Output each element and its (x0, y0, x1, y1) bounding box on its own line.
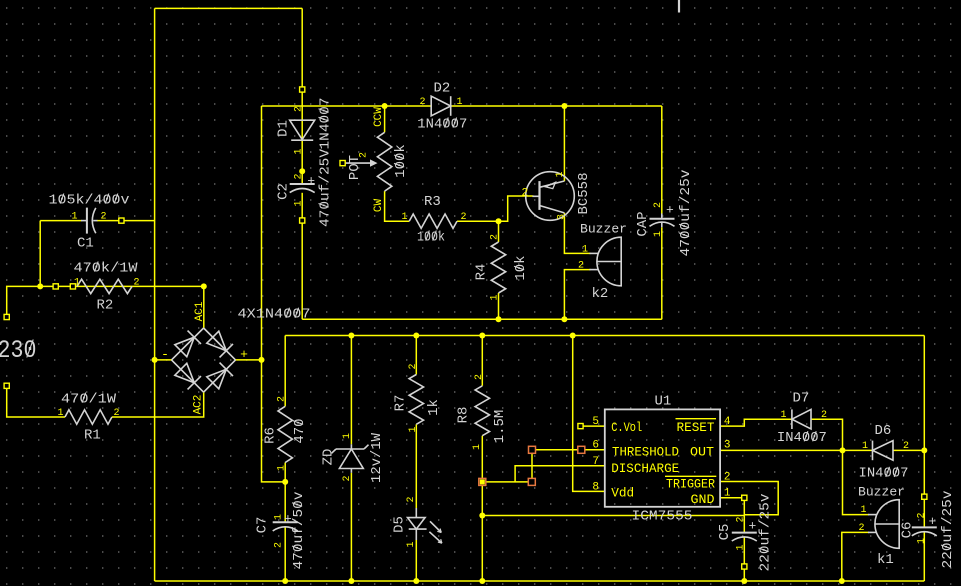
svg-text:-: - (161, 347, 169, 362)
svg-text:+: + (929, 514, 937, 529)
svg-text:2: 2 (273, 542, 284, 548)
diode D1 (290, 120, 315, 140)
capacitor C5 (732, 519, 757, 542)
svg-text:CCW: CCW (373, 107, 385, 127)
wire: bridge AC1 vertical (203, 286, 205, 328)
capacitor C7 (273, 511, 298, 531)
node AC2 (193, 395, 205, 415)
svg-text:D6: D6 (875, 423, 892, 439)
wire: right rail to C6 (923, 450, 925, 527)
svg-text:1: 1 (273, 514, 284, 520)
wire: D7 cathode to OUT node (811, 419, 843, 450)
svg-text:1: 1 (406, 541, 417, 547)
junction bridge plus (259, 357, 265, 363)
svg-text:2: 2 (419, 97, 425, 108)
svg-text:R1: R1 (84, 427, 101, 443)
transistor Q1 BC558 (526, 172, 575, 221)
terminal mains lower (4, 383, 9, 388)
svg-text:2: 2 (653, 202, 664, 208)
svg-text:2: 2 (474, 374, 485, 380)
svg-text:BC558: BC558 (576, 172, 592, 214)
junction R8 trigger net (479, 513, 485, 519)
pin 1 of R7 (408, 426, 419, 432)
label ZD (320, 449, 336, 466)
label R6 (262, 427, 278, 444)
svg-text:IN4007: IN4007 (859, 466, 909, 482)
wire: buzzer k1 pin2 to bottom rail (842, 532, 869, 581)
junction POT top rail (382, 103, 388, 109)
junction ZD bottom rail (348, 578, 354, 584)
label R4 (473, 264, 489, 281)
svg-text:3: 3 (556, 214, 567, 220)
wire: C7 to bottom rail (284, 527, 286, 581)
wire: mains terminal upper (7, 286, 41, 317)
svg-text:1: 1 (408, 426, 419, 432)
label POT (347, 155, 363, 180)
wire: D6 to right rail (893, 449, 924, 451)
junction k2 bottom rail (561, 316, 567, 322)
pin 2 of CAP (653, 202, 664, 208)
pin 2 of D5 (406, 496, 417, 502)
svg-text:2: 2 (134, 277, 140, 288)
label CW (373, 199, 385, 213)
junction R3/R4/base (496, 218, 502, 224)
svg-text:CW: CW (373, 199, 385, 213)
led D5 (408, 508, 442, 543)
svg-text:220uf/25v: 220uf/25v (757, 494, 773, 572)
label BC558 (576, 172, 592, 214)
svg-text:2: 2 (724, 472, 731, 484)
wire: R6 branch upper (284, 336, 286, 407)
svg-text:2: 2 (101, 212, 107, 223)
pin 1 of R8 (472, 444, 483, 450)
resistor R4 (491, 242, 505, 293)
resistor R8 (475, 386, 489, 436)
wire: right rail upper (923, 336, 925, 451)
wire: top block right vertical above CAP (661, 106, 663, 214)
highlight marker discharge corner (528, 478, 535, 485)
svg-text:1: 1 (916, 538, 927, 544)
svg-text:1N4007: 1N4007 (417, 116, 467, 132)
wire: top block top rail left of D2 (262, 105, 432, 107)
svg-text:C7: C7 (254, 517, 270, 534)
label POT value 100k (393, 144, 409, 178)
wire: R4 top stub (498, 221, 500, 242)
svg-text:RESET: RESET (677, 420, 715, 435)
svg-text:1: 1 (862, 441, 868, 452)
node AC1 (194, 301, 206, 321)
svg-text:1: 1 (860, 505, 866, 516)
buzzer k1 (868, 500, 899, 549)
svg-text:1: 1 (293, 200, 304, 206)
junction D6 right rail (921, 447, 927, 453)
svg-text:1: 1 (555, 171, 566, 177)
svg-text:1k: 1k (426, 399, 442, 416)
pin 2 of C5 (735, 516, 746, 522)
wire: C6 to bottom rail (923, 532, 925, 581)
capacitor CAP 4700uf (650, 203, 675, 228)
label C6 (899, 522, 915, 539)
label C7 value 470uf/50v (291, 492, 307, 570)
svg-text:R6: R6 (262, 427, 278, 444)
svg-text:1: 1 (489, 294, 500, 300)
highlight marker R8 threshold node (479, 478, 486, 485)
svg-text:10k: 10k (513, 255, 529, 280)
pin 1 of ZD (342, 433, 353, 439)
pin 2 of D1 (293, 106, 304, 112)
junction R2/AC1 (201, 283, 207, 289)
wire: R7 branch upper (415, 336, 417, 375)
svg-text:5: 5 (592, 416, 599, 428)
pin 1 of C5 (735, 544, 746, 550)
resistor R2 (77, 279, 132, 293)
pin 2 of R6 (276, 396, 287, 402)
pin 2 of R4 (489, 234, 500, 240)
svg-text:2: 2 (858, 523, 864, 534)
wire: C1 left vertical (39, 221, 41, 287)
wire: U1 pin4 RESET to D7 (720, 419, 792, 426)
wire: R2 output to AC1 node (40, 285, 204, 287)
wire: top block top rail right of D2 (451, 105, 662, 107)
svg-text:Buzzer: Buzzer (858, 485, 905, 500)
pin 1 of C7 (273, 514, 284, 520)
wire: Q1 collector to buzzer k2 pin1 (564, 213, 590, 254)
pin 1 of C6 (916, 538, 927, 544)
resistor R3 (409, 214, 457, 228)
wire: R8 branch upper (481, 336, 483, 386)
svg-text:U1: U1 (655, 393, 672, 409)
wire: bottom rail (155, 580, 925, 582)
svg-text:R7: R7 (392, 395, 408, 412)
svg-text:2: 2 (461, 212, 467, 223)
svg-text:+: + (666, 203, 674, 218)
svg-text:470: 470 (292, 418, 308, 443)
wire end marker C1 right (119, 218, 124, 223)
pin 1 of R4 (489, 294, 500, 300)
junction ZD top rail (348, 333, 354, 339)
junction R4 bottom rail (496, 316, 502, 322)
wire: D1/C2 branch vertical upper (301, 8, 303, 184)
svg-text:2: 2 (489, 234, 500, 240)
svg-text:2: 2 (358, 152, 369, 158)
svg-text:C1: C1 (77, 235, 94, 251)
junction R8 bottom rail (479, 578, 485, 584)
diode D2 (431, 96, 451, 116)
wire: C1 pin2 to left vertical (97, 220, 155, 222)
wire: bridge plus down to R6 node (262, 360, 286, 482)
label C6 value 220uf/25v (940, 491, 956, 569)
bridge rectifier 4X1N4007 (172, 328, 236, 392)
svg-text:R2: R2 (97, 297, 114, 313)
svg-text:1N4007: 1N4007 (317, 98, 333, 150)
wire: D5 to bottom rail (415, 540, 417, 581)
wire: D1/C2 branch vertical lower (301, 193, 303, 319)
wire: threshold link vertical (531, 450, 533, 482)
POT wiper terminal (340, 161, 345, 166)
svg-text:4: 4 (724, 416, 731, 428)
wire: mains terminal lower to R1 (7, 386, 65, 417)
label C5 value 220uf/25v (757, 494, 773, 572)
label D5 (391, 516, 407, 533)
label D1 value 1N4007 (317, 98, 333, 150)
label R8 (455, 407, 471, 424)
svg-text:R3: R3 (424, 194, 441, 210)
pin 2 of C7 (273, 542, 284, 548)
svg-text:1: 1 (57, 408, 63, 419)
label CAP value 4700uf/25v (678, 170, 694, 257)
wire end marker R2 left b (70, 284, 75, 289)
svg-text:C.Vol: C.Vol (611, 420, 642, 435)
wire end marker C2 bottom (300, 218, 305, 223)
label R6 value 470 (292, 418, 308, 443)
highlight marker threshold pin6 a (578, 446, 585, 453)
label R7 (392, 395, 408, 412)
svg-text:220uf/25v: 220uf/25v (940, 491, 956, 569)
svg-text:2: 2 (406, 496, 417, 502)
svg-text:R8: R8 (455, 407, 471, 424)
svg-text:1: 1 (457, 97, 463, 108)
svg-text:IN4007: IN4007 (777, 430, 827, 446)
label C5 (717, 524, 733, 541)
wire: R8 branch lower (481, 436, 483, 581)
label ZD value 12v/1W (369, 432, 385, 483)
svg-text:1: 1 (401, 212, 407, 223)
label C7 (254, 517, 270, 534)
wire: POT bottom to R3 (385, 191, 410, 221)
svg-text:2: 2 (916, 512, 927, 518)
wire: R7 to D5 (415, 424, 417, 508)
svg-text:+: + (307, 173, 315, 188)
svg-text:1: 1 (71, 212, 77, 223)
highlight marker threshold pin6 b (529, 446, 536, 453)
svg-text:OUT: OUT (690, 445, 714, 460)
wire: C1 pin1 stub (40, 220, 81, 222)
buzzer k2 (590, 237, 622, 286)
svg-text:2: 2 (408, 363, 419, 369)
zener diode ZD (332, 444, 369, 473)
junction D5 bottom rail (413, 578, 419, 584)
wire end marker R2 left a (53, 284, 58, 289)
junction C7 bottom rail (282, 578, 288, 584)
junction k1 bottom rail (839, 578, 845, 584)
svg-text:GND: GND (691, 492, 715, 507)
wire: bridge plus stub (236, 359, 262, 361)
pin 1 of Q1 (555, 171, 566, 177)
pin 1 of R6 (276, 465, 287, 471)
svg-text:AC2: AC2 (193, 395, 205, 415)
svg-text:D2: D2 (434, 81, 451, 97)
svg-text:1: 1 (293, 148, 304, 154)
svg-text:2: 2 (114, 408, 120, 419)
wire: POT top (384, 106, 386, 132)
svg-text:12v/1W: 12v/1W (369, 432, 385, 483)
svg-text:1: 1 (472, 444, 483, 450)
junction C1/R2 node (37, 283, 43, 289)
svg-text:R4: R4 (473, 264, 489, 281)
svg-text:C6: C6 (899, 522, 915, 539)
resistor R7 (409, 375, 423, 425)
junction C5 bottom rail (741, 578, 747, 584)
svg-text:2: 2 (293, 173, 304, 179)
junction D1/C2 (299, 168, 305, 174)
svg-text:470k/1W: 470k/1W (74, 260, 139, 276)
svg-text:2: 2 (522, 187, 529, 199)
resistor R6 (278, 406, 292, 462)
svg-text:AC1: AC1 (194, 301, 206, 321)
wire: C5 to bottom rail (743, 537, 745, 581)
wire: left main vertical (154, 8, 156, 581)
wire: bridge minus stub (155, 359, 172, 361)
svg-text:+: + (749, 519, 757, 534)
wire: lower block top rail (285, 335, 924, 337)
pin 2 of ZD (342, 475, 353, 481)
junction R8 top rail (479, 333, 485, 339)
svg-text:1: 1 (276, 465, 287, 471)
svg-text:D7: D7 (793, 390, 810, 406)
pin 1 of D1 (293, 148, 304, 154)
resistor R1 (65, 410, 112, 424)
wire: Vdd feed vertical (573, 336, 605, 492)
pin 2 of R7 (408, 363, 419, 369)
svg-text:4X1N4007: 4X1N4007 (238, 307, 311, 323)
pin 2 of C6 (916, 512, 927, 518)
wire: threshold link horizontal (482, 481, 532, 483)
svg-text:Buzzer: Buzzer (580, 222, 627, 237)
wire: U1 pin3 OUT to D6 (720, 449, 872, 451)
wire: U1 pin6 THRESHOLD (532, 449, 605, 451)
diode D6 (873, 441, 894, 461)
wire: top block bottom rail (302, 318, 662, 320)
pin 2 of POT (358, 152, 369, 158)
svg-text:Vdd: Vdd (611, 486, 634, 501)
label D1 (275, 120, 291, 137)
capacitor C1 (81, 208, 98, 234)
wire: top block left vertical (261, 106, 263, 360)
label C2 (275, 183, 291, 200)
op-amp U1 ICM7555 box (605, 409, 720, 506)
svg-text:8: 8 (592, 482, 599, 494)
svg-text:7: 7 (592, 456, 599, 468)
svg-text:1: 1 (653, 231, 664, 237)
pin 2 of C2 (293, 173, 304, 179)
svg-text:+: + (240, 347, 248, 362)
svg-text:1: 1 (724, 488, 731, 500)
junction emitter top rail (561, 103, 567, 109)
capacitor C2 (290, 173, 316, 192)
wire: U1 pin7 DISCHARGE with drop (515, 466, 605, 482)
junction D7/OUT (840, 447, 846, 453)
svg-text:470uf/25V: 470uf/25V (317, 148, 333, 227)
terminal mains upper (4, 314, 9, 319)
wire: base node to Q1 base (499, 196, 534, 221)
pin 2 of R8 (474, 374, 485, 380)
diode D7 (792, 409, 811, 429)
svg-text:1: 1 (342, 433, 353, 439)
wire: top block right vertical below CAP (661, 227, 663, 319)
wire end marker GND pin1 (742, 495, 747, 500)
wire end marker C5 bottom (742, 564, 747, 569)
wire: R3 to base node (457, 220, 499, 222)
svg-text:4700uf/25v: 4700uf/25v (678, 170, 694, 257)
junction R7 top rail (413, 333, 419, 339)
wire: trigger net horizontal under U1 (482, 515, 744, 517)
wire: R1 to bridge AC2 (112, 392, 204, 417)
svg-text:1: 1 (780, 410, 786, 421)
wire: ZD branch upper (350, 336, 352, 445)
label R7 value 1k (426, 399, 442, 416)
svg-text:D1: D1 (275, 120, 291, 137)
svg-text:DISCHARGE: DISCHARGE (611, 461, 679, 476)
junction Vdd top rail (570, 333, 576, 339)
svg-text:2: 2 (821, 410, 827, 421)
svg-text:TRIGGER: TRIGGER (666, 477, 715, 492)
svg-text:k1: k1 (877, 552, 894, 568)
wire: U1 pin2 TRIGGER loop (720, 482, 778, 515)
svg-text:C5: C5 (717, 524, 733, 541)
clipped vertical mark top right (678, 0, 680, 13)
potentiometer POT (343, 132, 392, 191)
svg-text:1: 1 (735, 544, 746, 550)
svg-text:THRESHOLD: THRESHOLD (612, 445, 679, 460)
label R4 value 10k (513, 255, 529, 280)
label CCW (373, 107, 385, 127)
wire: R6 to C7 (284, 463, 286, 523)
svg-text:100k: 100k (393, 144, 409, 178)
svg-text:2: 2 (276, 396, 287, 402)
svg-text:2: 2 (578, 261, 584, 272)
svg-text:6: 6 (592, 440, 599, 452)
svg-text:C2: C2 (275, 183, 291, 200)
svg-text:2: 2 (903, 441, 909, 452)
wire: ZD branch lower (350, 473, 352, 581)
label C2 value 470uf/25V (317, 148, 333, 227)
svg-text:100k: 100k (417, 229, 445, 245)
svg-text:1.5M: 1.5M (492, 410, 508, 444)
wire: U1 pin1 GND to C5 (720, 498, 744, 533)
wire: top loop horizontal (155, 7, 303, 9)
svg-text:D5: D5 (391, 516, 407, 533)
svg-text:ICM7555: ICM7555 (632, 509, 693, 525)
pin 1 of CAP (653, 231, 664, 237)
wire: Q1 emitter up to top rail (563, 106, 565, 181)
wire end marker C.Vol pin5 (578, 424, 583, 429)
pin 1 of C2 (293, 200, 304, 206)
svg-text:3: 3 (724, 440, 731, 452)
label R8 value 1.5M (492, 410, 508, 444)
svg-text:k2: k2 (592, 286, 609, 302)
wire end marker C6 top (922, 494, 927, 499)
svg-text:ZD: ZD (320, 449, 336, 466)
wire: buzzer k2 pin2 to bottom rail (564, 270, 590, 320)
svg-text:CAP: CAP (635, 211, 651, 236)
svg-text:2: 2 (293, 106, 304, 112)
wire end marker D1 top (300, 87, 305, 92)
svg-text:470/1W: 470/1W (61, 391, 117, 407)
junction R6/C7 node (282, 479, 288, 485)
wire: U1 pin5 C.Vol stub (583, 425, 605, 427)
wire: OUT node down to buzzer k1 pin1 (843, 450, 870, 514)
wire: R4 bottom stub (498, 293, 500, 319)
pin 3 of Q1 (556, 214, 567, 220)
svg-text:1: 1 (582, 244, 588, 255)
label CAP (635, 211, 651, 236)
junction bridge minus (152, 357, 158, 363)
svg-text:2: 2 (342, 475, 353, 481)
pin 1 of D5 (406, 541, 417, 547)
svg-text:2: 2 (735, 516, 746, 522)
svg-text:230: 230 (0, 336, 37, 365)
capacitor C6 (912, 514, 937, 536)
